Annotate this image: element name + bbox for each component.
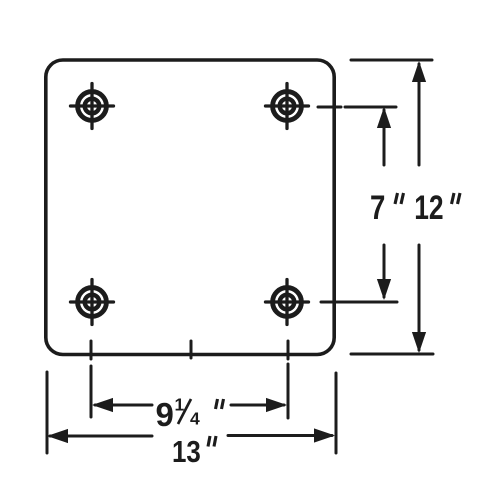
tick below plate center	[190, 341, 193, 358]
dimension line 12 inch (vertical)	[418, 64, 421, 350]
extension line left (9 1/4 inch)	[90, 366, 93, 417]
arrowhead 12 inch down	[412, 332, 426, 353]
hole H3 (bottom-left)	[71, 280, 114, 325]
arrowhead 9 1/4 left	[92, 398, 113, 412]
dimension line 13 inch (horizontal)	[50, 434, 332, 438]
label 13 inch	[172, 434, 216, 468]
arrowhead 13 left	[47, 429, 68, 443]
arrowhead 7 inch up	[377, 107, 391, 128]
dimension line 7 inch (vertical)	[383, 110, 386, 297]
label 7 inch	[370, 188, 404, 227]
extension line right (9 1/4 inch)	[287, 364, 290, 418]
tick below plate left hole column	[90, 341, 93, 359]
extension line top (7 inch)	[318, 106, 396, 109]
hole H4 (bottom-right)	[266, 280, 309, 325]
extension line bottom (7 inch)	[321, 301, 397, 304]
extension line top (12 inch)	[351, 59, 432, 62]
svg-text:13: 13	[172, 434, 201, 468]
svg-text:9: 9	[156, 396, 174, 433]
plate outline	[46, 60, 334, 355]
tick below plate right hole column	[287, 341, 290, 359]
extension line right (13 inch)	[335, 373, 338, 453]
dimension line 9 1/4 inch (horizontal)	[95, 404, 284, 407]
svg-text:12: 12	[414, 188, 443, 227]
arrowhead 9 1/4 right	[266, 398, 287, 412]
svg-text:4: 4	[190, 409, 200, 429]
arrowhead 13 right	[314, 428, 335, 442]
label 9 1/4 inch	[156, 395, 224, 434]
hole H1 (top-left)	[71, 84, 114, 129]
arrowhead 7 inch down	[377, 279, 391, 300]
hole H2 (top-right)	[266, 84, 309, 129]
extension line bottom (12 inch)	[351, 353, 433, 356]
label 12 inch	[414, 188, 460, 227]
arrowhead 12 inch up	[412, 61, 426, 82]
extension line left (13 inch)	[46, 372, 49, 453]
svg-text:7: 7	[370, 188, 385, 227]
